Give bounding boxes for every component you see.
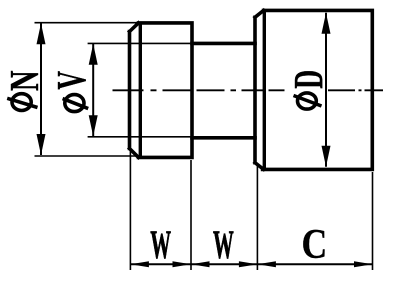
svg-text:V: V [49, 71, 94, 90]
cylinder outline [255, 10, 372, 169]
bottom dimension line [130, 263, 372, 265]
extension lines ØN [35, 23, 138, 156]
arrow W1 right [173, 261, 192, 267]
neck outline [192, 43, 255, 137]
svg-text:D: D [286, 70, 331, 89]
label ØV [49, 71, 94, 112]
flange outline [130, 23, 193, 158]
label ØN [2, 71, 47, 111]
bottom extension lines [130, 150, 372, 270]
centerline [113, 89, 384, 91]
svg-text:N: N [2, 71, 47, 91]
dimension line ØN [37, 23, 46, 155]
arrow C left [257, 261, 276, 267]
cylinder chamfer line [263, 10, 266, 169]
extension lines ØV [88, 43, 191, 136]
arrow W1 left [130, 261, 149, 267]
flange chamfer line [139, 23, 142, 158]
arrow C right [354, 261, 373, 267]
dimension line ØV [89, 44, 98, 136]
arrow W2 right [239, 261, 258, 267]
label ØD [286, 70, 331, 109]
dimension line ØD [322, 13, 331, 167]
arrow W2 left [191, 261, 210, 267]
svg-text:W: W [213, 223, 234, 267]
svg-text:W: W [150, 223, 171, 267]
svg-text:C: C [302, 221, 328, 267]
